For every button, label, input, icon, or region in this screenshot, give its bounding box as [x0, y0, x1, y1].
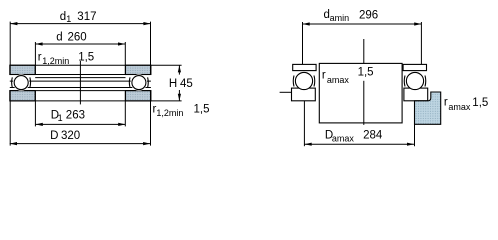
svg-text:d: d: [56, 32, 62, 44]
dimension line H vertical: [178, 65, 180, 74]
label D1 263: [51, 110, 85, 123]
svg-text:1,5: 1,5: [78, 52, 94, 64]
svg-text:amin: amin: [330, 13, 350, 23]
svg-text:1,5: 1,5: [472, 97, 488, 109]
svg-text:284: 284: [363, 129, 383, 141]
extension line Damax left: [303, 101, 305, 146]
cage section right of left ball: [313, 76, 316, 87]
dimension line Damax: [305, 143, 415, 145]
extension line bore-left: [34, 42, 36, 75]
svg-text:1,2min: 1,2min: [42, 56, 69, 66]
svg-text:H: H: [169, 78, 177, 90]
svg-text:1,5: 1,5: [358, 66, 374, 78]
ball right: [406, 72, 423, 89]
dimension line d1: [10, 23, 150, 25]
washer bottom-right: [404, 88, 428, 101]
ball right: [132, 76, 146, 90]
label Damax 284: [325, 129, 383, 143]
svg-text:r: r: [322, 69, 326, 81]
centerline right: [363, 39, 365, 63]
label H 45: [169, 78, 193, 90]
extension line outer-left: [9, 22, 11, 75]
svg-text:1,5: 1,5: [194, 104, 210, 116]
cage section right of left ball: [29, 77, 32, 87]
bottom washer top face line: [10, 90, 151, 92]
label d1 317: [60, 11, 97, 24]
cage section right of right ball: [147, 77, 150, 87]
ball left: [14, 76, 28, 90]
svg-text:1,2min: 1,2min: [156, 108, 183, 118]
washer top-left shaded: [10, 65, 35, 74]
cage section left of right ball: [403, 76, 406, 87]
top washer bottom face line: [10, 74, 151, 76]
svg-text:d: d: [60, 11, 66, 23]
svg-text:45: 45: [180, 78, 193, 90]
extension line outer-right: [150, 22, 152, 75]
washer top-right shaded: [126, 65, 151, 74]
cage section left of right ball: [128, 77, 131, 87]
svg-text:320: 320: [61, 130, 80, 142]
extension line damin right: [420, 22, 422, 64]
ball right halo: [131, 74, 147, 90]
washer top-left: [293, 64, 316, 70]
label r12min 1,5 bottom: [153, 103, 210, 117]
washer bottom-right shaded: [126, 91, 151, 101]
svg-text:r: r: [38, 51, 42, 63]
top face line with H extension: [10, 64, 182, 66]
svg-text:260: 260: [68, 32, 87, 44]
shaft block: [319, 63, 402, 123]
svg-text:296: 296: [359, 9, 378, 21]
cage top line: [10, 80, 151, 82]
washer bottom-left: [292, 88, 316, 101]
ball left halo: [13, 74, 29, 90]
extension line Damax right: [414, 101, 416, 146]
dimension line D: [10, 143, 151, 145]
cage section left of left ball: [11, 77, 14, 87]
label D 320: [50, 130, 80, 142]
label ramax 1,5 right: [444, 97, 488, 112]
extension line damin left: [302, 22, 304, 64]
svg-text:r: r: [444, 97, 448, 109]
cage section left of left ball: [292, 76, 295, 87]
cage bottom line: [10, 87, 151, 89]
groove rim line upper: [35, 77, 125, 79]
svg-text:amax: amax: [332, 133, 355, 143]
washer top-right: [403, 64, 426, 70]
label r12min 1,5 top: [38, 51, 94, 65]
svg-text:D: D: [50, 130, 58, 142]
cage section right of right ball: [424, 76, 427, 87]
svg-text:amax: amax: [448, 102, 471, 112]
bottom face line with H extension: [10, 100, 182, 102]
label ramax 1,5 center: [322, 66, 374, 85]
extension line bore-right: [124, 42, 126, 75]
svg-text:1: 1: [66, 14, 71, 24]
dimension line d: [35, 43, 125, 45]
dimension line damin: [303, 23, 422, 25]
label damin 296: [324, 9, 379, 23]
ball left: [295, 72, 312, 89]
svg-text:263: 263: [66, 110, 85, 122]
svg-text:1: 1: [58, 113, 63, 123]
svg-text:317: 317: [77, 11, 96, 23]
washer bottom-left shaded: [10, 91, 35, 101]
shaft surface line left: [280, 91, 292, 93]
housing block shaded: [415, 92, 441, 124]
label d 260: [56, 32, 86, 44]
svg-text:amax: amax: [327, 75, 350, 85]
dimension line D1: [36, 123, 126, 125]
centerline: [79, 61, 81, 104]
